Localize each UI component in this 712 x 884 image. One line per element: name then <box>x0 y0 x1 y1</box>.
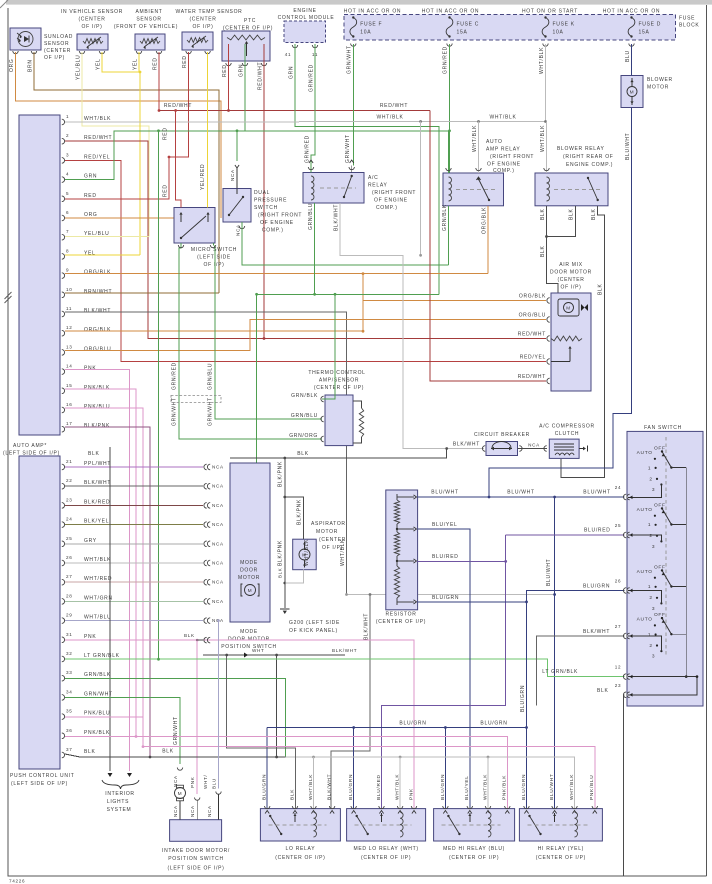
svg-text:GRN/RED: GRN/RED <box>309 64 315 92</box>
wire YEL/RED into micro switch <box>207 52 209 208</box>
harness connector jog <box>171 395 221 402</box>
svg-text:SWITCH: SWITCH <box>254 205 278 211</box>
svg-text:RED: RED <box>153 57 159 70</box>
svg-text:41: 41 <box>285 52 292 57</box>
svg-text:3: 3 <box>652 606 655 612</box>
svg-text:BLK: BLK <box>591 208 597 220</box>
svg-text:OFF: OFF <box>654 445 666 451</box>
svg-text:ENGINE: ENGINE <box>293 8 316 14</box>
svg-text:3: 3 <box>652 544 655 550</box>
svg-text:NCA: NCA <box>190 805 195 817</box>
wire WHT/BLK bus bottom <box>286 757 575 809</box>
svg-text:GRN/WHT: GRN/WHT <box>345 134 351 163</box>
svg-text:AUTO: AUTO <box>637 450 653 456</box>
svg-text:GRN/WHT: GRN/WHT <box>347 45 353 74</box>
svg-text:FUSE D: FUSE D <box>639 22 662 28</box>
svg-text:BLU/GRN: BLU/GRN <box>440 774 446 800</box>
pin 37 wire BLK <box>65 754 286 757</box>
svg-text:MOTOR: MOTOR <box>238 575 260 581</box>
svg-text:AMP RELAY: AMP RELAY <box>486 147 520 153</box>
svg-text:HOT IN ACC OR ON: HOT IN ACC OR ON <box>422 9 480 15</box>
svg-text:29: 29 <box>66 613 73 618</box>
svg-text:BLU/YEL: BLU/YEL <box>464 775 470 800</box>
svg-text:AIR MIX: AIR MIX <box>559 262 583 268</box>
wire RED/WHT top horizontal <box>159 110 430 112</box>
svg-text:BLU/GRN: BLU/GRN <box>521 774 527 800</box>
mode door motor box <box>230 463 270 622</box>
svg-text:BLK: BLK <box>540 208 546 220</box>
svg-text:GRN/WHT: GRN/WHT <box>172 397 178 426</box>
wire BLU/GRN bus <box>267 727 526 729</box>
svg-text:(LEFT SIDE: (LEFT SIDE <box>197 255 231 261</box>
svg-text:BRN/WHT: BRN/WHT <box>84 289 112 295</box>
svg-text:NCA: NCA <box>236 224 241 236</box>
svg-text:(CENTER OF I/P): (CENTER OF I/P) <box>449 855 499 861</box>
svg-text:OFF: OFF <box>654 564 666 570</box>
wire WHT with arrow <box>203 654 345 656</box>
svg-text:1: 1 <box>648 465 651 471</box>
svg-text:IN VEHICLE SENSOR: IN VEHICLE SENSOR <box>61 9 123 15</box>
svg-text:BLK/WHT: BLK/WHT <box>364 613 370 640</box>
wire NCA to compressor clutch <box>518 448 548 450</box>
svg-text:WHT/GRN: WHT/GRN <box>84 595 113 601</box>
svg-text:GRY: GRY <box>84 538 97 544</box>
svg-text:(CENTER: (CENTER <box>44 48 71 54</box>
pin 8 wire YEL <box>65 254 140 256</box>
svg-text:WHT/BLK: WHT/BLK <box>540 125 546 152</box>
svg-text:SENSOR: SENSOR <box>44 41 69 47</box>
pin 5 wire RED <box>65 157 169 199</box>
svg-text:CLUTCH: CLUTCH <box>555 431 579 437</box>
svg-text:1: 1 <box>648 632 651 638</box>
svg-text:5: 5 <box>66 191 69 196</box>
svg-text:(FRONT OF VEHICLE): (FRONT OF VEHICLE) <box>114 24 178 30</box>
svg-text:GRN/RED: GRN/RED <box>305 135 311 163</box>
svg-text:M: M <box>566 306 571 311</box>
pin 12 wire ORG/BLK to air mix <box>65 301 546 332</box>
svg-text:RELAY: RELAY <box>368 183 388 189</box>
svg-text:COMP.): COMP.) <box>262 228 284 234</box>
LO RELAY <box>260 809 340 841</box>
svg-text:RED: RED <box>222 64 228 77</box>
svg-text:GRN/ORG: GRN/ORG <box>289 433 318 439</box>
wire BLK/PNK to aspirator <box>285 497 304 539</box>
svg-text:2: 2 <box>66 133 69 138</box>
pin 36 wire PNK/BLK <box>65 736 136 738</box>
svg-text:NCA: NCA <box>212 599 224 604</box>
svg-text:(LEFT SIDE OF I/P): (LEFT SIDE OF I/P) <box>11 781 68 787</box>
svg-text:DOOR MOTOR: DOOR MOTOR <box>550 270 592 276</box>
svg-text:BLK/WHT: BLK/WHT <box>583 629 610 635</box>
svg-text:PNK/BLU: PNK/BLU <box>589 775 595 800</box>
svg-text:GRN/WHT: GRN/WHT <box>173 716 179 745</box>
wire BLK/PNK vertical with ground G200 <box>284 458 286 608</box>
svg-text:BLU/GRN: BLU/GRN <box>583 584 610 590</box>
svg-text:27: 27 <box>615 624 622 629</box>
svg-text:(CENTER OF I/P): (CENTER OF I/P) <box>275 855 325 861</box>
svg-text:BLU/GRN: BLU/GRN <box>520 685 526 712</box>
svg-text:BLU/RED: BLU/RED <box>376 774 382 800</box>
svg-text:OF ENGINE: OF ENGINE <box>487 162 521 168</box>
svg-text:PNK/BLK: PNK/BLK <box>502 775 508 800</box>
fuse F 10A <box>352 16 354 18</box>
wire BLK/WHT down to LO relay <box>331 595 370 809</box>
wire BLU/YEL resistor to MED HI relay <box>418 529 470 809</box>
intake motor M circle <box>177 768 182 771</box>
svg-text:34: 34 <box>66 689 73 694</box>
svg-text:MOTOR: MOTOR <box>647 85 669 91</box>
pin 27 wire to NCA <box>65 581 203 583</box>
wire ORG from sunload sensor <box>16 52 222 218</box>
svg-text:BLU/WHT: BLU/WHT <box>583 490 610 496</box>
svg-text:26: 26 <box>615 579 622 584</box>
svg-text:GRN/WHT: GRN/WHT <box>208 397 214 426</box>
svg-text:PNK: PNK <box>84 366 96 372</box>
svg-text:FAN SWITCH: FAN SWITCH <box>644 425 682 431</box>
svg-text:OFF: OFF <box>654 502 666 508</box>
pin 26 wire to NCA <box>65 562 203 564</box>
wire GRN from PTC <box>244 44 246 131</box>
svg-text:LIGHTS: LIGHTS <box>107 799 129 805</box>
engine control module <box>284 21 326 43</box>
svg-text:22: 22 <box>66 478 73 483</box>
pin 32 wire LT GRN/BLK to fan switch pin 12 <box>65 659 625 676</box>
svg-text:1: 1 <box>648 584 651 590</box>
AC compressor clutch <box>549 439 579 458</box>
interior lights system brace and arrows <box>102 780 139 789</box>
svg-text:DOOR: DOOR <box>240 568 258 574</box>
svg-text:BLK: BLK <box>278 568 283 578</box>
svg-text:BLU/RED: BLU/RED <box>432 554 459 560</box>
svg-text:WHT/BLU: WHT/BLU <box>84 615 111 621</box>
svg-text:GRN: GRN <box>84 174 97 180</box>
svg-text:WHT/BLK: WHT/BLK <box>539 47 545 74</box>
svg-text:WHT/RED: WHT/RED <box>84 576 112 582</box>
pin 2 wire RED/WHT <box>65 141 546 338</box>
svg-text:INTERIOR: INTERIOR <box>105 791 135 797</box>
svg-text:OF I/P): OF I/P) <box>560 285 581 291</box>
svg-text:(CENTER OF I/P): (CENTER OF I/P) <box>361 855 411 861</box>
svg-text:(CENTER OF I/P): (CENTER OF I/P) <box>536 855 586 861</box>
svg-text:BLU/GRN: BLU/GRN <box>262 774 268 800</box>
blower relay <box>535 173 608 206</box>
air mix door motor <box>551 293 591 391</box>
svg-text:WHT/: WHT/ <box>203 774 208 789</box>
svg-text:AMBIENT: AMBIENT <box>135 9 162 15</box>
svg-text:WATER TEMP SENSOR: WATER TEMP SENSOR <box>175 9 242 15</box>
intake door motor / position switch <box>170 820 222 842</box>
wire YEL from ambient sensor <box>138 52 140 72</box>
wire PNK riser to intake door motor switch <box>196 640 198 794</box>
wire BLK fan pin 23 to frame <box>623 695 624 876</box>
svg-text:BLK: BLK <box>84 749 96 755</box>
svg-text:10A: 10A <box>553 30 564 36</box>
svg-text:BLK: BLK <box>569 208 575 220</box>
aspirator motor <box>293 539 317 570</box>
svg-text:25: 25 <box>615 523 622 528</box>
svg-text:PTC: PTC <box>244 18 256 24</box>
wire RED/WHT from PTC down to air mix <box>263 44 265 339</box>
pin 15 wire PNK/BLK <box>65 389 136 737</box>
svg-text:GRN: GRN <box>289 66 295 79</box>
svg-text:A/C COMPRESSOR: A/C COMPRESSOR <box>539 424 595 430</box>
svg-text:OF I/P): OF I/P) <box>44 55 65 61</box>
svg-text:NCA: NCA <box>212 484 224 489</box>
svg-text:12: 12 <box>615 665 622 670</box>
svg-text:2: 2 <box>649 643 652 649</box>
PTC <box>222 31 270 61</box>
wire PNK/BLU to HI relay <box>143 747 595 809</box>
wire WHT/BLU riser to intake door motor <box>218 621 220 789</box>
push control unit connector box <box>19 456 60 769</box>
svg-text:FUSE C: FUSE C <box>457 22 480 28</box>
wire RED into micro switch <box>176 111 181 208</box>
svg-text:POSITION SWITCH: POSITION SWITCH <box>221 644 277 650</box>
junction YEL <box>139 71 142 74</box>
junction RED PTC <box>227 109 230 112</box>
svg-text:6: 6 <box>66 210 69 215</box>
fuse block <box>344 15 676 41</box>
svg-text:10: 10 <box>66 287 73 292</box>
svg-text:WHT/BLK: WHT/BLK <box>482 774 488 800</box>
fan switch selector bus <box>685 468 687 677</box>
svg-text:BLK: BLK <box>184 633 195 638</box>
svg-text:2: 2 <box>649 476 652 482</box>
pin 29 wire to NCA <box>65 620 203 622</box>
wire GRN branch to dual pressure switch <box>236 131 238 161</box>
svg-text:15A: 15A <box>639 30 650 36</box>
svg-text:(LEFT SIDE OF I/P): (LEFT SIDE OF I/P) <box>168 865 225 871</box>
svg-text:ORG/BLK: ORG/BLK <box>482 207 488 234</box>
svg-text:23: 23 <box>66 497 73 502</box>
fan switch box <box>627 431 703 706</box>
wire GRN drop to mode door motor box <box>256 294 258 463</box>
svg-text:HOT IN ACC OR ON: HOT IN ACC OR ON <box>603 9 661 15</box>
svg-text:CONTROL MODULE: CONTROL MODULE <box>278 15 335 21</box>
svg-text:LT GRN/BLK: LT GRN/BLK <box>542 669 578 675</box>
svg-text:(RIGHT REAR OF: (RIGHT REAR OF <box>563 154 614 160</box>
svg-text:BLK/PNK: BLK/PNK <box>278 540 284 566</box>
svg-text:PUSH CONTROL UNIT: PUSH CONTROL UNIT <box>10 773 75 779</box>
fan switch bottom rows <box>628 677 697 695</box>
auto amp connector box <box>19 115 60 435</box>
wire WHT/BLK from aspirator to ground line <box>285 570 304 583</box>
svg-text:(RIGHT FRONT: (RIGHT FRONT <box>490 154 534 160</box>
svg-text:ORG/BLU: ORG/BLU <box>84 346 111 352</box>
pin 14 wire PNK to interior lights <box>65 370 130 771</box>
svg-text:RED/YEL: RED/YEL <box>520 355 546 361</box>
svg-text:LO RELAY: LO RELAY <box>286 846 316 852</box>
wire ORG/BLK from auto amp relay <box>487 206 489 274</box>
svg-text:BLU/GRN: BLU/GRN <box>432 595 459 601</box>
svg-text:4: 4 <box>66 172 69 177</box>
svg-text:FUSE K: FUSE K <box>553 22 575 28</box>
svg-text:32: 32 <box>66 651 73 656</box>
intake stub WHT/BLU <box>216 792 221 795</box>
svg-text:ENGINE COMP.): ENGINE COMP.) <box>566 162 613 168</box>
thermo control amp/sensor <box>325 395 353 446</box>
wire YEL down to micro switch region <box>139 72 141 255</box>
svg-text:BLU/WHT: BLU/WHT <box>625 133 631 160</box>
wire BLU from fuse D to blower motor <box>631 44 633 76</box>
wire WHT/BLK from fuse K <box>545 44 547 122</box>
svg-text:3: 3 <box>66 152 69 157</box>
pin 11 wire BLK/WHT long <box>65 312 347 595</box>
wire BLK/WHT fan pin 27 <box>537 636 625 706</box>
svg-text:WHT/BLK: WHT/BLK <box>376 114 403 120</box>
svg-text:A/C: A/C <box>368 175 378 181</box>
svg-text:MED LO RELAY (WHT): MED LO RELAY (WHT) <box>353 846 418 852</box>
svg-text:PRESSURE: PRESSURE <box>254 198 287 204</box>
svg-text:8: 8 <box>66 248 69 253</box>
svg-text:COMP.): COMP.) <box>376 205 398 211</box>
svg-text:33: 33 <box>66 670 73 675</box>
svg-text:23: 23 <box>615 683 622 688</box>
wire GRN horizontal to thermo GRN/BLK <box>257 293 439 295</box>
border continuation ticks <box>5 292 12 299</box>
svg-text:RED/WHT: RED/WHT <box>164 103 192 109</box>
svg-text:BLK/RED: BLK/RED <box>84 499 110 505</box>
svg-text:PNK/BLK: PNK/BLK <box>84 385 110 391</box>
svg-text:12: 12 <box>66 325 73 330</box>
svg-text:SUNLOAD: SUNLOAD <box>44 34 73 40</box>
svg-text:HOT ON OR START: HOT ON OR START <box>522 9 578 15</box>
wire GRN/BLU from AC relay <box>314 203 316 294</box>
wire GRN/RED from ECM pin 11 <box>311 44 315 166</box>
svg-text:YEL/RED: YEL/RED <box>200 164 206 190</box>
svg-text:11: 11 <box>66 306 72 311</box>
BLK wire bus <box>230 449 447 459</box>
svg-text:OFF: OFF <box>654 612 666 618</box>
svg-text:35: 35 <box>66 709 73 714</box>
svg-text:GRN/BLK: GRN/BLK <box>442 204 448 231</box>
svg-text:PNK: PNK <box>408 788 414 800</box>
pin 34 wire GRN/WHT down to intake door motor <box>65 698 180 764</box>
svg-text:PNK: PNK <box>190 776 195 788</box>
svg-text:MODE: MODE <box>240 560 258 566</box>
svg-text:RED: RED <box>84 193 97 199</box>
HI RELAY (YEL) <box>519 809 602 841</box>
svg-text:NCA: NCA <box>173 805 178 817</box>
svg-text:AUTO: AUTO <box>486 139 503 145</box>
svg-text:15A: 15A <box>457 30 468 36</box>
svg-text:WHT/BLK: WHT/BLK <box>304 539 310 566</box>
svg-text:DOOR MOTOR: DOOR MOTOR <box>228 637 270 643</box>
svg-text:MODE: MODE <box>240 629 258 635</box>
svg-text:31: 31 <box>66 632 73 637</box>
pin 7 wire YEL/BLU <box>65 235 149 237</box>
svg-text:28: 28 <box>66 593 73 598</box>
wire YEL from in vehicle sensor <box>102 52 140 72</box>
svg-text:AMP/SENSOR: AMP/SENSOR <box>319 378 359 384</box>
svg-text:RED/WHT: RED/WHT <box>518 374 546 380</box>
svg-text:NCA: NCA <box>212 580 224 585</box>
pin 9 wire ORG/BLK bus to auto amp relay <box>65 273 488 275</box>
svg-text:(CENTER: (CENTER <box>78 17 105 23</box>
svg-text:9: 9 <box>66 268 69 273</box>
svg-text:37: 37 <box>66 747 73 752</box>
water temp sensor <box>182 32 213 50</box>
wire RED from ambient sensor <box>158 52 160 111</box>
wire BLU/RED resistor to fan pin 25 and MED LO relay <box>418 560 506 562</box>
svg-text:PNK/BLU: PNK/BLU <box>84 711 110 717</box>
intake stub PNK <box>195 798 200 801</box>
svg-text:WHT/BLK: WHT/BLK <box>489 115 516 121</box>
svg-text:BRN: BRN <box>28 59 34 72</box>
svg-text:BLOWER RELAY: BLOWER RELAY <box>557 146 605 152</box>
svg-text:NCA: NCA <box>528 443 540 448</box>
dual pressure switch <box>223 189 251 223</box>
wire GRN/WHT from fuse F to AC relay <box>352 44 354 166</box>
wire GRN/RED - GRN/WHT from micro switch to thermo GRN/ORG <box>179 243 322 439</box>
wire GRN from ECM pin 41 <box>295 44 439 294</box>
svg-text:2: 2 <box>649 595 652 601</box>
wire BLU/WHT down to HI relay <box>554 497 556 809</box>
svg-text:WHT/BLK: WHT/BLK <box>84 557 111 563</box>
svg-text:AUTO AMP*: AUTO AMP* <box>13 443 47 449</box>
ground G200 <box>283 611 287 614</box>
svg-text:HOT IN ACC OR ON: HOT IN ACC OR ON <box>344 9 402 15</box>
svg-text:GRN/BLK: GRN/BLK <box>291 393 318 399</box>
svg-text:WHT/BLK: WHT/BLK <box>395 774 401 800</box>
svg-text:(CENTER OF I/P): (CENTER OF I/P) <box>314 385 364 391</box>
svg-text:BLK/WHT: BLK/WHT <box>453 442 480 448</box>
svg-text:M: M <box>178 791 183 797</box>
svg-text:M: M <box>248 588 253 594</box>
svg-text:BLU/GRN: BLU/GRN <box>480 721 507 727</box>
wire BLU/GRN risers <box>266 728 268 809</box>
wire BLU/GRN resistor to fan pin 26 and relay bus <box>418 601 527 603</box>
svg-text:BLU/YEL: BLU/YEL <box>432 522 457 528</box>
pin 25 wire to NCA <box>65 543 203 545</box>
pin 4 wire GRN <box>65 131 450 180</box>
svg-text:BLOWER: BLOWER <box>647 77 673 83</box>
svg-text:RED/WHT: RED/WHT <box>518 332 546 338</box>
svg-text:BLK/WHT: BLK/WHT <box>334 204 340 231</box>
svg-text:BLK: BLK <box>598 283 604 295</box>
svg-text:NCA: NCA <box>230 169 235 181</box>
svg-text:BLK/WHT: BLK/WHT <box>332 648 357 653</box>
svg-text:RED/WHT: RED/WHT <box>258 62 264 90</box>
svg-text:WHT/BLK: WHT/BLK <box>84 116 111 122</box>
svg-text:BLK: BLK <box>540 245 546 257</box>
svg-text:BLU/GRN: BLU/GRN <box>348 774 354 800</box>
wire BLU/WHT from blower motor <box>489 108 632 498</box>
svg-text:BLK/WHT: BLK/WHT <box>327 774 333 800</box>
svg-text:GRN/BLU: GRN/BLU <box>308 203 314 230</box>
pin 17 wire BLK/PNK <box>65 427 150 757</box>
svg-text:7: 7 <box>66 229 69 234</box>
svg-text:BLK: BLK <box>162 749 174 755</box>
wire GRN/RED from fuse C to auto amp relay <box>449 44 451 173</box>
pin 16 wire PNK/BLU <box>65 408 143 747</box>
wire YEL/BLU from in vehicle sensor <box>82 52 149 236</box>
svg-text:HI RELAY (YEL): HI RELAY (YEL) <box>538 846 584 852</box>
svg-text:YEL: YEL <box>133 58 139 70</box>
svg-text:GRN/RED: GRN/RED <box>172 362 178 390</box>
svg-text:MED HI RELAY (BLU): MED HI RELAY (BLU) <box>443 846 505 852</box>
wire RED from water temp sensor <box>169 52 189 157</box>
pin 3 wire RED/YEL <box>65 160 546 361</box>
pin 10 wire BRN/WHT <box>65 292 219 294</box>
pin 21 wire to NCA <box>65 466 203 468</box>
svg-text:NCA: NCA <box>212 522 224 527</box>
svg-text:OF I/P): OF I/P) <box>192 24 213 30</box>
svg-text:BLU: BLU <box>625 50 631 62</box>
svg-text:NCA: NCA <box>212 465 224 470</box>
svg-text:ORG/BLK: ORG/BLK <box>84 327 111 333</box>
pin 31 wire PNK to MED LO relay <box>65 640 414 809</box>
